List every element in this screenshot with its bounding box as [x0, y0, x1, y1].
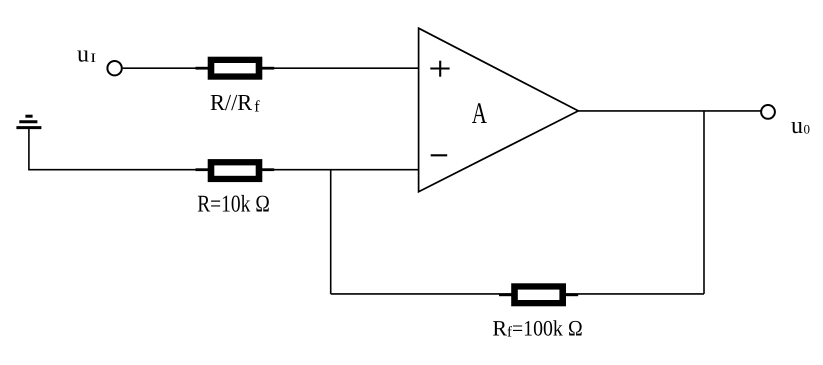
svg-text:=100k Ω: =100k Ω [512, 316, 583, 341]
svg-text:R: R [492, 316, 507, 341]
svg-text:u: u [77, 42, 89, 68]
svg-text:A: A [472, 97, 487, 130]
svg-text:0: 0 [804, 121, 811, 136]
svg-text:u: u [791, 113, 803, 139]
svg-text:R=10k Ω: R=10k Ω [197, 191, 270, 217]
svg-text:f: f [254, 99, 260, 116]
svg-text:R//R: R//R [210, 90, 253, 115]
svg-text:I: I [90, 50, 96, 65]
